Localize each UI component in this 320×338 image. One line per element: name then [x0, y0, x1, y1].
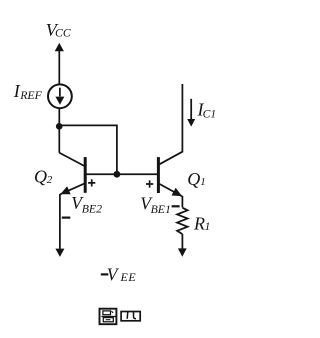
svg-text:BE2: BE2 [82, 201, 102, 215]
svg-text:Q: Q [187, 169, 200, 189]
svg-text:Q: Q [34, 167, 47, 187]
svg-text:1: 1 [200, 176, 206, 188]
svg-text:CC: CC [55, 25, 71, 39]
svg-text:R: R [193, 213, 205, 233]
svg-text:EE: EE [120, 270, 137, 284]
svg-text:C1: C1 [203, 108, 217, 121]
svg-text:2: 2 [47, 174, 53, 186]
svg-text:REF: REF [19, 88, 42, 102]
svg-text:BE1: BE1 [151, 202, 171, 216]
svg-text:1: 1 [205, 221, 211, 233]
